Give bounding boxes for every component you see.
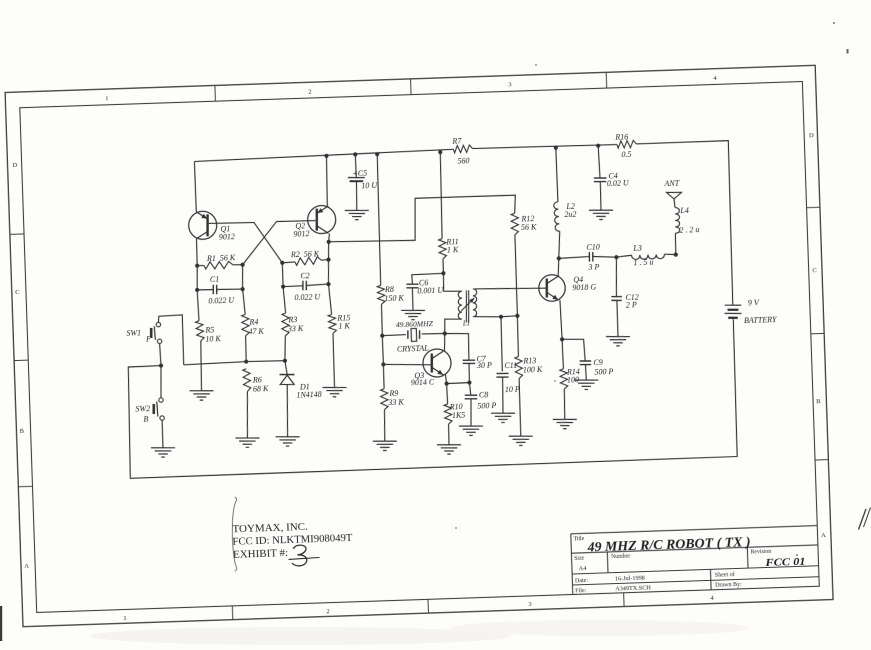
resistor R4	[241, 314, 264, 336]
wire rail to L2	[556, 148, 558, 202]
wire node Q2C to R2	[328, 242, 329, 260]
svg-text:F: F	[145, 334, 151, 343]
resistor R16	[614, 132, 637, 159]
scan slash artifact bottom right	[859, 508, 871, 530]
resistor R10	[444, 402, 466, 424]
junction	[441, 271, 445, 275]
wire Q3 emitter down	[445, 374, 446, 384]
svg-text:FCC 01: FCC 01	[764, 556, 806, 569]
wire to R10	[447, 384, 448, 404]
wire Q1 base cross-couple	[209, 221, 283, 265]
wire to R14	[562, 339, 563, 369]
wire battery bottom stub	[732, 317, 734, 319]
svg-text:0.022 U: 0.022 U	[294, 292, 321, 302]
svg-text:1K5: 1K5	[452, 411, 466, 420]
svg-text:560: 560	[457, 156, 469, 165]
capacitor C4	[594, 171, 631, 189]
resistor R7	[451, 136, 473, 165]
ground	[190, 390, 214, 401]
wire L3 to antenna node	[664, 254, 675, 255]
battery BT1 9V	[724, 298, 778, 326]
wire crystal right lead	[422, 333, 445, 334]
wire C2 left lead	[283, 285, 303, 288]
wire L1 secondary to Q4 base	[475, 286, 547, 290]
junction	[324, 154, 328, 158]
svg-text:1 . 5 u: 1 . 5 u	[633, 258, 653, 268]
svg-text:D: D	[809, 132, 814, 139]
ground	[491, 412, 515, 423]
svg-text:L4: L4	[679, 206, 689, 215]
wire crystal node to L1 primary bottom	[444, 319, 461, 334]
ground	[509, 435, 533, 446]
junction	[240, 263, 244, 267]
transformer L1	[457, 289, 477, 328]
capacitor C2	[294, 271, 322, 302]
scan bracket artifact	[231, 497, 239, 571]
junction	[674, 252, 678, 256]
svg-text:2: 2	[308, 88, 311, 95]
transistor Q4	[538, 273, 596, 301]
wire node to C7	[445, 333, 470, 361]
svg-text:9012: 9012	[219, 232, 235, 242]
svg-text:SW1: SW1	[126, 329, 141, 338]
svg-text:3 P: 3 P	[587, 263, 599, 272]
wire node to L1 primary top	[443, 273, 461, 292]
wire R14 to ground	[564, 389, 566, 419]
svg-text:33 K: 33 K	[387, 397, 404, 407]
wire rail to C4	[598, 146, 600, 178]
wire R5 to ground	[200, 341, 203, 391]
junction	[515, 314, 519, 318]
svg-text:1: 1	[105, 95, 108, 102]
wire Q1 emitter to rail	[194, 161, 196, 211]
resistor R8	[377, 284, 404, 304]
svg-text:16-Jul-1998: 16-Jul-1998	[615, 575, 645, 583]
svg-text:30 P: 30 P	[476, 361, 492, 371]
ground	[553, 419, 577, 430]
ground	[276, 436, 300, 447]
junction	[326, 257, 330, 261]
resistor R11	[438, 237, 459, 259]
svg-text:L3: L3	[632, 244, 642, 253]
svg-text:3: 3	[508, 81, 511, 88]
svg-text:ANT: ANT	[663, 178, 680, 188]
switch SW1	[126, 322, 162, 344]
wire rail to R8	[376, 154, 381, 285]
svg-text:9014 C: 9014 C	[411, 378, 435, 388]
wire C1 right to R4	[243, 289, 246, 314]
wire R2 right lead	[321, 259, 328, 262]
svg-text:A: A	[24, 563, 29, 570]
wire SW1 top over to bus	[158, 315, 184, 366]
wire R1 left lead	[197, 264, 204, 266]
ground	[606, 336, 630, 347]
capacitor C9	[579, 357, 613, 377]
scan speck artifacts	[455, 22, 849, 556]
inductor L4	[674, 205, 699, 234]
svg-text:R13: R13	[522, 356, 536, 365]
wire node down to C12	[615, 257, 618, 296]
junction	[240, 287, 244, 291]
svg-text:SW2: SW2	[135, 404, 150, 413]
junction	[283, 359, 287, 363]
resistor R13	[515, 356, 543, 379]
wire node to C6	[412, 273, 444, 284]
wire to R9	[382, 364, 385, 388]
diode D1	[279, 360, 323, 437]
svg-text:0.5: 0.5	[621, 150, 631, 159]
wire node to C8	[469, 383, 470, 395]
inductor L3	[631, 243, 665, 268]
wire Q2 emitter to rail	[326, 156, 329, 206]
svg-text:C10: C10	[586, 243, 600, 252]
svg-text:BATTERY: BATTERY	[744, 315, 778, 325]
switch SW2	[135, 398, 164, 425]
wire R1 right lead	[233, 264, 243, 266]
svg-text:B: B	[143, 415, 148, 424]
wire R3 to bus	[284, 336, 286, 361]
svg-text:Revision: Revision	[751, 549, 772, 556]
junction	[159, 363, 163, 367]
svg-text:49.860MHZ: 49.860MHZ	[396, 319, 434, 329]
antenna ANT	[663, 178, 681, 199]
svg-text:1: 1	[123, 615, 126, 622]
wire R12 to secondary node	[515, 235, 518, 316]
svg-text:C8: C8	[479, 390, 489, 399]
scan edge artifact left	[0, 606, 2, 641]
wire C4 to ground	[600, 182, 601, 211]
wire node Q1C to C1	[196, 266, 198, 290]
wire Q3E to C7/C8 node	[447, 383, 470, 384]
svg-text:Date:: Date:	[575, 578, 589, 584]
ground	[151, 447, 175, 458]
junction	[443, 331, 447, 335]
wire R6 to ground	[246, 391, 249, 437]
svg-text:A4: A4	[578, 565, 587, 572]
resistor R1	[204, 253, 237, 269]
inductor L2	[554, 201, 577, 231]
svg-text:10 U: 10 U	[361, 181, 378, 191]
ground	[235, 437, 259, 448]
svg-text:150 K: 150 K	[384, 293, 404, 303]
svg-text:R8: R8	[384, 285, 394, 294]
wire crystal node to Q3 base node	[382, 336, 383, 365]
transistor Q1	[188, 210, 235, 242]
wire R11 to node	[442, 259, 445, 273]
svg-text:R6: R6	[252, 375, 262, 384]
wire rail to R11	[439, 152, 443, 238]
resistor R15	[328, 313, 351, 333]
wire C5 to ground	[356, 181, 358, 210]
svg-text:R3: R3	[287, 315, 297, 324]
wire SW1 bottom	[160, 343, 161, 365]
junction	[438, 150, 442, 154]
svg-text:R2 56 K: R2 56 K	[290, 249, 320, 259]
ground	[574, 379, 598, 390]
wire rail to C5	[354, 154, 357, 177]
junction	[281, 284, 285, 288]
wire Q1 collector down	[196, 239, 197, 266]
svg-text:C9: C9	[593, 358, 603, 367]
wire C9 to ground	[584, 365, 587, 381]
wire C11 to ground	[502, 377, 504, 413]
svg-text:Size: Size	[574, 556, 585, 562]
wire node up to L4	[675, 233, 676, 254]
wire C8 to ground	[470, 399, 472, 426]
svg-text:3: 3	[528, 601, 531, 608]
junction	[560, 337, 564, 341]
svg-text:1N4148: 1N4148	[296, 390, 322, 400]
wire R8 to crystal node	[381, 304, 382, 335]
resistor R9	[380, 388, 404, 410]
junction	[280, 261, 284, 265]
wire R10 to ground	[447, 424, 450, 445]
resistor R6	[243, 368, 269, 394]
capacitor C12	[611, 293, 639, 310]
svg-text:C: C	[812, 267, 817, 274]
svg-text:CRYSTAL: CRYSTAL	[397, 343, 430, 353]
svg-text:68 K: 68 K	[253, 384, 269, 394]
wire C1 left lead	[197, 288, 213, 291]
wire bus left segment	[184, 362, 247, 365]
svg-text:R16: R16	[614, 133, 628, 142]
capacitor C7	[462, 354, 492, 370]
wire C10 to L3 node	[593, 256, 617, 258]
wire SW2 to ground	[161, 420, 164, 448]
svg-text:File:: File:	[575, 588, 587, 594]
svg-text:2 . 2 u: 2 . 2 u	[679, 225, 699, 235]
wire C2 right to R15	[328, 284, 331, 314]
text TOYMAX INC block	[232, 519, 354, 560]
svg-text:47 K: 47 K	[248, 326, 264, 336]
svg-text:D: D	[12, 162, 17, 169]
wire Q2 collector to R12	[327, 195, 516, 243]
resistor R14	[560, 367, 581, 389]
svg-text:C: C	[15, 289, 20, 296]
wire node to C10	[559, 257, 590, 259]
wire node to R13	[517, 316, 519, 357]
wire R2 right to C2 right	[328, 260, 330, 285]
wire ground return loop to battery -	[126, 319, 738, 478]
svg-text:C11: C11	[504, 361, 517, 370]
wire secondary bottom to C11 node	[475, 316, 501, 318]
svg-text:10 K: 10 K	[205, 334, 221, 344]
svg-text:0.022 U: 0.022 U	[208, 296, 235, 306]
wire VCC top rail mid	[472, 144, 617, 150]
junction	[195, 288, 199, 292]
ground	[401, 310, 425, 321]
wire Q3 collector up	[444, 334, 445, 351]
capacitor C11	[496, 361, 520, 395]
svg-text:R5: R5	[204, 325, 214, 334]
svg-text:Title: Title	[573, 536, 584, 542]
svg-text:9 V: 9 V	[748, 298, 760, 307]
svg-text:A349TX.SCH: A349TX.SCH	[615, 584, 651, 592]
svg-text:56 K: 56 K	[521, 222, 537, 232]
junction	[380, 334, 384, 338]
svg-text:10 P: 10 P	[505, 384, 520, 393]
ground	[322, 387, 346, 398]
svg-text:33 K: 33 K	[287, 324, 304, 334]
wire Q4E to C9	[562, 339, 585, 362]
junction	[554, 146, 558, 150]
junction	[557, 256, 561, 260]
junction	[375, 152, 379, 156]
ground	[459, 425, 483, 436]
svg-text:2u2: 2u2	[564, 210, 576, 219]
svg-text:9012: 9012	[293, 229, 309, 239]
wire crystal left lead	[382, 335, 406, 336]
wire Q2 base cross-couple	[241, 220, 317, 264]
junction	[326, 282, 330, 286]
svg-text:EXHIBIT #:: EXHIBIT #:	[233, 547, 288, 561]
wire bus right segment	[246, 360, 285, 362]
svg-text:R1 56 K: R1 56 K	[206, 253, 236, 263]
wire SW2 top	[160, 366, 162, 398]
wire C1 left to R5	[197, 290, 199, 321]
wire R15 to ground	[333, 333, 335, 387]
svg-text:+C5: +C5	[352, 169, 367, 178]
capacitor C1	[208, 274, 236, 305]
capacitor C8	[464, 390, 496, 411]
wire C6 to ground	[411, 288, 414, 311]
svg-text:0.001 U: 0.001 U	[417, 286, 444, 296]
crystal Y1 49.860MHZ	[396, 319, 435, 353]
svg-text:1 K: 1 K	[338, 321, 350, 330]
junction	[381, 362, 385, 366]
wire R9 to ground	[384, 410, 386, 442]
wire R4 to bus	[245, 336, 246, 362]
wire C11 node to R12 node	[501, 316, 517, 317]
wire C12 to ground	[617, 300, 618, 336]
svg-text:9018 G: 9018 G	[572, 283, 596, 293]
svg-text:500 P: 500 P	[477, 401, 496, 411]
svg-text:1 K: 1 K	[447, 245, 459, 254]
transistor Q2	[292, 205, 336, 238]
ground	[345, 210, 369, 221]
resistor R12	[511, 213, 537, 235]
capacitor C6	[406, 278, 444, 296]
junction	[499, 315, 503, 319]
svg-text:R7: R7	[451, 137, 462, 146]
capacitor C10	[586, 243, 600, 272]
svg-text:C1: C1	[210, 275, 220, 284]
junction	[596, 144, 600, 148]
transistor Q3	[410, 349, 452, 388]
wire VCC top rail left	[194, 149, 453, 161]
svg-text:Number: Number	[611, 554, 630, 561]
wire L2 to Q4 collector node	[558, 231, 561, 258]
junction	[614, 255, 618, 259]
svg-text:2: 2	[326, 608, 329, 615]
wire L4 to antenna	[673, 199, 676, 208]
wire C2 right lead	[306, 284, 328, 285]
handwritten exhibit number 3	[288, 545, 320, 567]
resistor R3	[281, 313, 304, 336]
wire node R1R to C1R	[242, 265, 244, 289]
svg-text:0.02 U: 0.02 U	[607, 178, 630, 188]
svg-text:2 P: 2 P	[626, 300, 637, 309]
ground	[373, 440, 397, 451]
wire C1 right lead	[217, 289, 243, 290]
wire node to L3	[616, 255, 631, 257]
junction	[244, 359, 248, 363]
wire Q3 base	[383, 363, 431, 367]
resistor R2	[290, 249, 322, 266]
wire Q4 emitter down	[560, 300, 562, 339]
wire C2 left to R3	[283, 287, 285, 314]
svg-text:R9: R9	[388, 389, 398, 398]
svg-text:A: A	[821, 532, 826, 539]
wire R13 to ground	[519, 379, 521, 437]
wire Q4 collector up	[558, 258, 560, 276]
wire C7 bottom	[468, 363, 471, 382]
junction	[444, 381, 448, 385]
resistor R5	[195, 320, 221, 344]
svg-text:C2: C2	[300, 271, 310, 280]
junction	[467, 380, 471, 384]
junction	[195, 264, 199, 268]
svg-text:Drawn By:: Drawn By:	[715, 582, 742, 589]
wire Q2 collector down	[328, 233, 329, 241]
junction	[353, 152, 357, 156]
wire down to C11	[500, 317, 502, 371]
svg-text:500 P: 500 P	[594, 367, 613, 377]
svg-text:100 K: 100 K	[523, 365, 543, 375]
ground	[437, 444, 461, 455]
junction	[327, 240, 331, 244]
svg-text:Sheet of: Sheet of	[715, 571, 735, 579]
svg-text:R4: R4	[248, 317, 258, 326]
svg-text:L1: L1	[462, 319, 471, 327]
wire node R2L to C2L	[281, 263, 284, 287]
capacitor C5	[348, 168, 379, 191]
wire top rail to battery +	[636, 141, 734, 309]
ground	[589, 209, 613, 220]
wire R2 left lead	[282, 261, 295, 264]
